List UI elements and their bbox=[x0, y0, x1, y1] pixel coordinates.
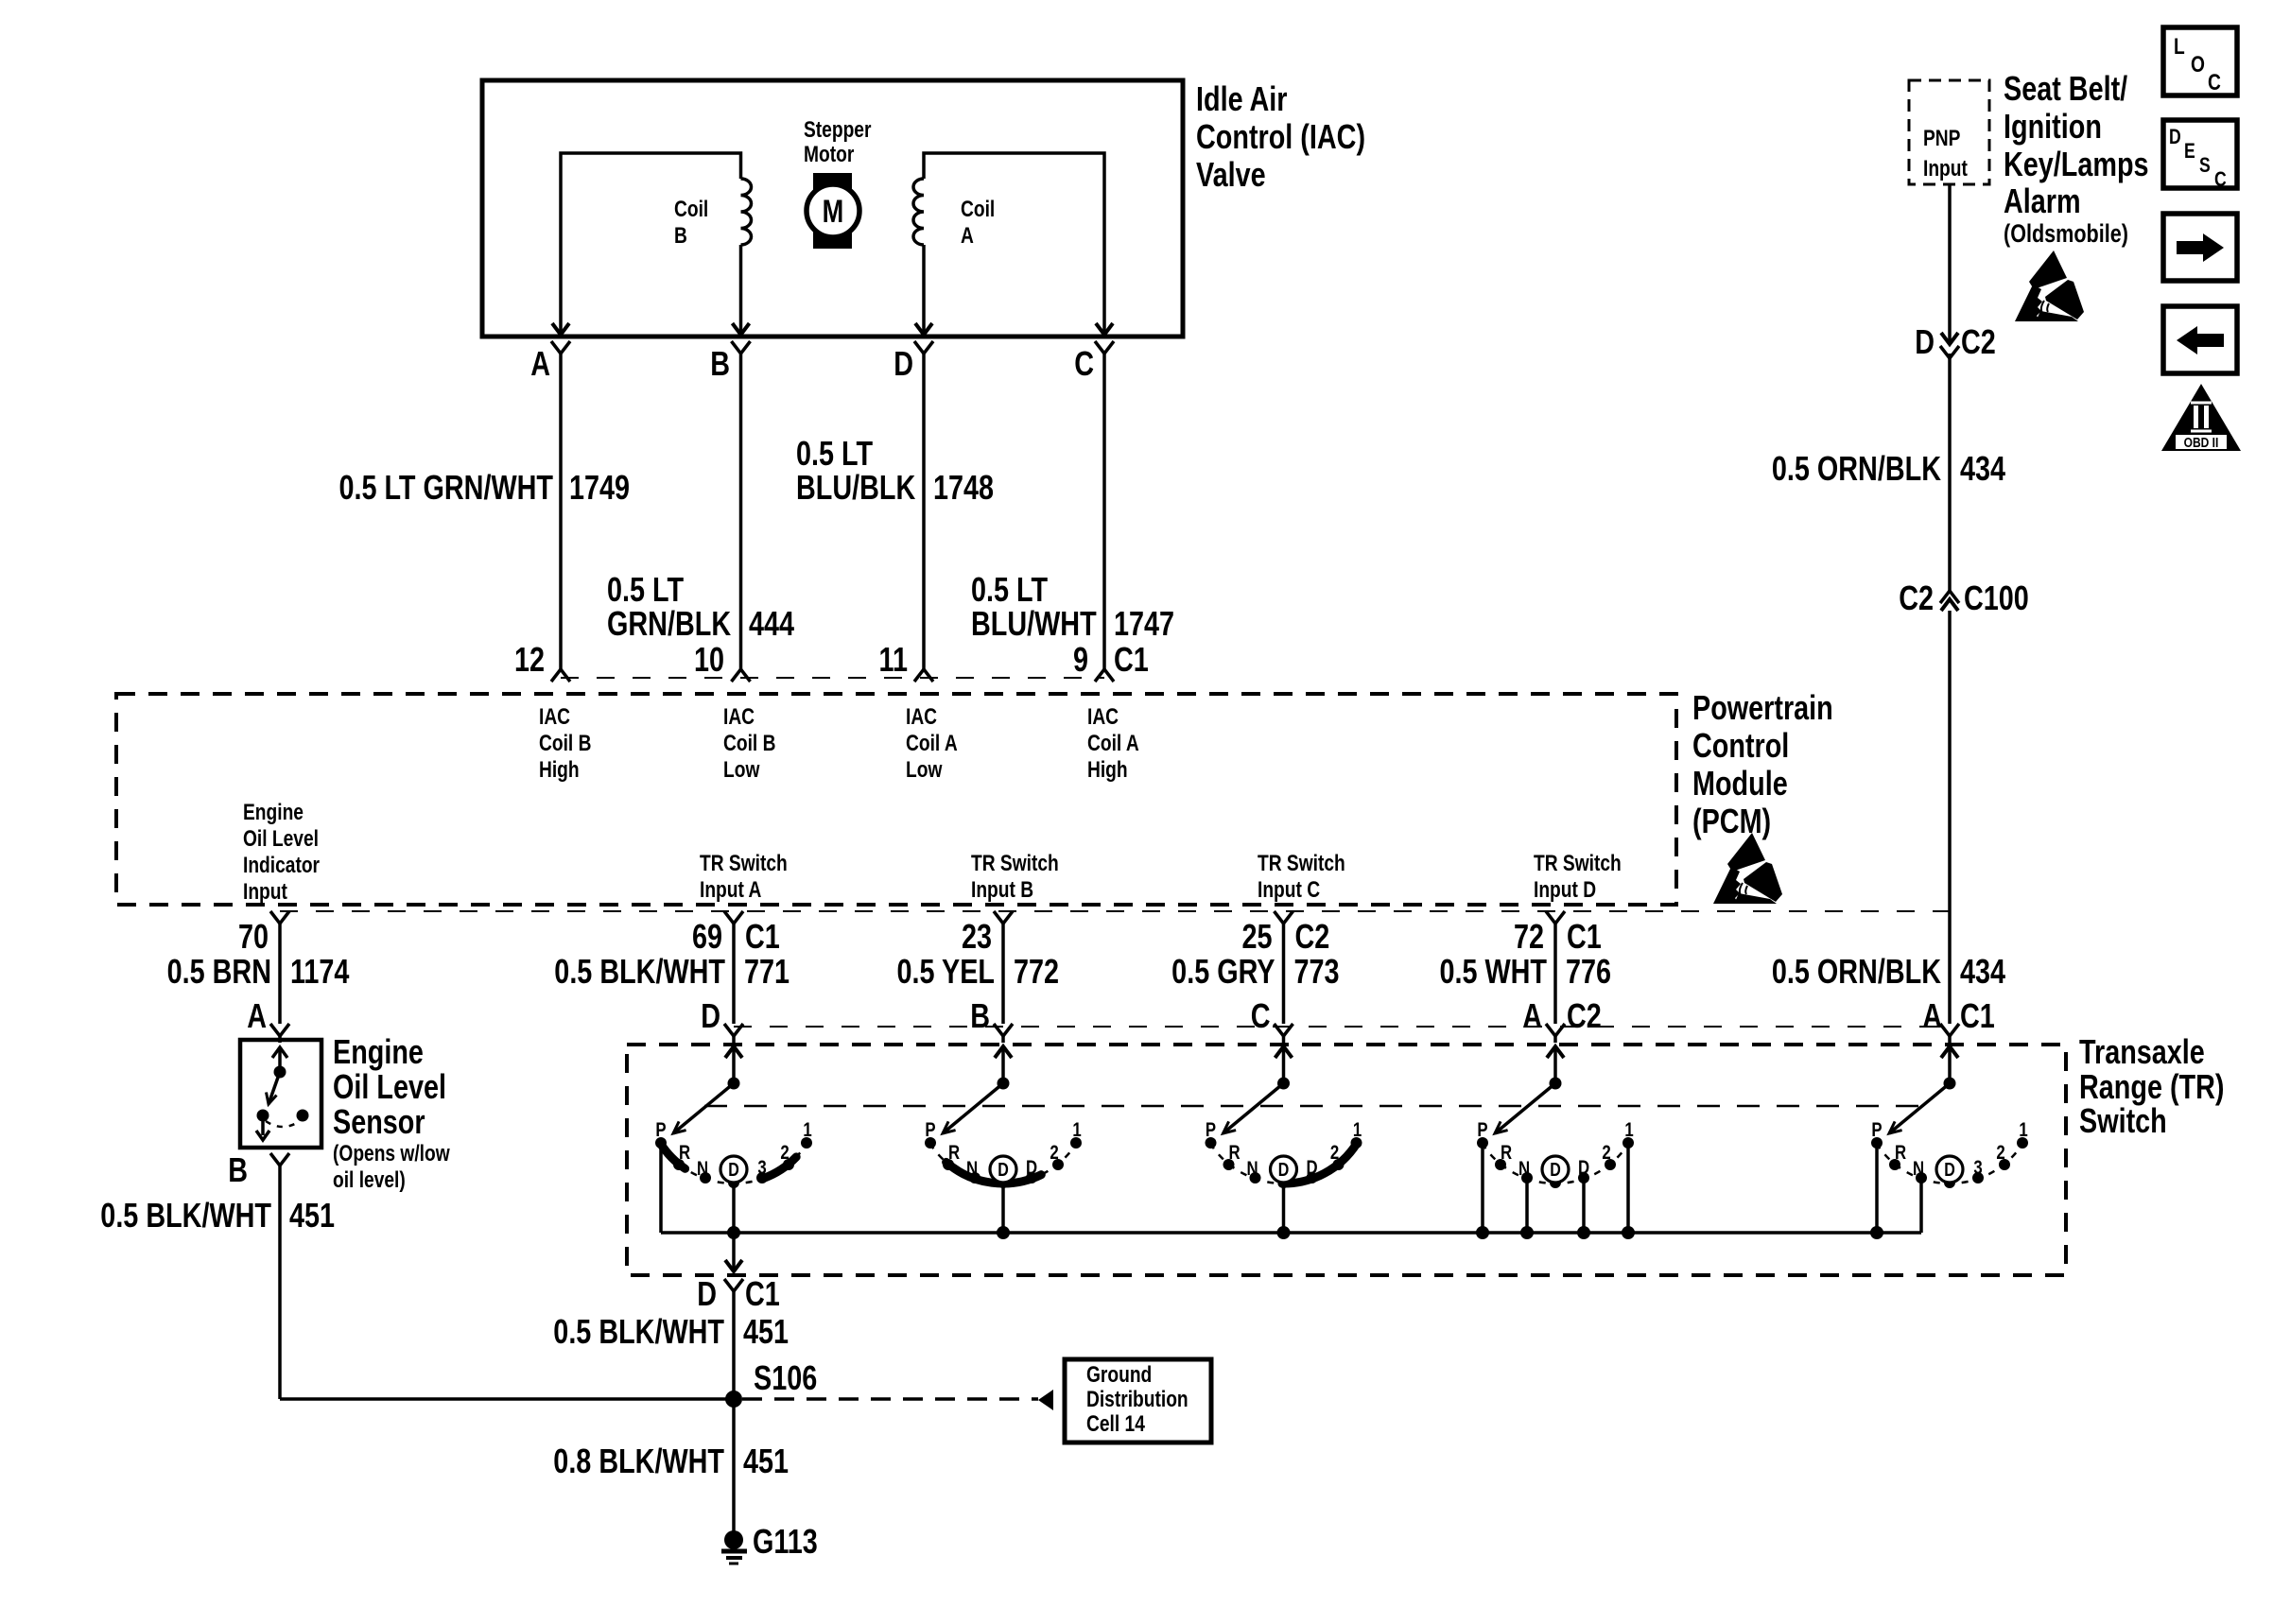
PCM pin 70 wire 1174 to TR switch bbox=[167, 911, 350, 1043]
svg-text:1: 1 bbox=[803, 1119, 812, 1141]
svg-text:OBD II: OBD II bbox=[2184, 435, 2219, 451]
svg-text:C2: C2 bbox=[1295, 917, 1330, 956]
svg-text:Engine: Engine bbox=[243, 799, 304, 825]
svg-text:0.5 ORN/BLK: 0.5 ORN/BLK bbox=[1772, 449, 1942, 488]
svg-text:451: 451 bbox=[743, 1312, 789, 1351]
svg-text:0.5 BRN: 0.5 BRN bbox=[167, 952, 271, 991]
PNP input box bbox=[1909, 80, 1989, 184]
svg-text:Distribution: Distribution bbox=[1086, 1386, 1189, 1412]
PCM box bbox=[116, 694, 1676, 905]
svg-text:Stepper: Stepper bbox=[804, 116, 872, 143]
IAC valve pin A wire bbox=[530, 323, 570, 669]
svg-text:O: O bbox=[2191, 51, 2205, 78]
svg-text:High: High bbox=[539, 756, 580, 783]
PCM engine oil level indicator input label bbox=[243, 799, 321, 905]
wire 434 lower segment bbox=[1948, 611, 1952, 1024]
sensor pin B wire 451 bbox=[100, 1150, 335, 1399]
LOC icon bbox=[2163, 27, 2237, 95]
TR switch common bus wire bbox=[661, 1231, 1921, 1235]
svg-text:1: 1 bbox=[1624, 1119, 1634, 1141]
svg-text:Coil A: Coil A bbox=[906, 730, 958, 756]
svg-text:D: D bbox=[2169, 126, 2181, 148]
Transaxle Range switch box bbox=[627, 1045, 2066, 1275]
PCM TR switch input A label bbox=[700, 850, 788, 903]
OBD II icon bbox=[2161, 384, 2241, 451]
svg-text:IAC: IAC bbox=[1087, 703, 1119, 730]
IAC valve label bbox=[1196, 79, 1365, 194]
svg-text:S: S bbox=[2199, 154, 2211, 177]
PCM pin 10 connector bbox=[694, 640, 751, 682]
svg-text:Input A: Input A bbox=[700, 876, 762, 903]
svg-text:72: 72 bbox=[1514, 917, 1544, 956]
PCM pin 9 connector bbox=[1073, 640, 1114, 682]
svg-text:Seat Belt/: Seat Belt/ bbox=[2004, 69, 2127, 108]
svg-text:B: B bbox=[970, 996, 990, 1035]
TR switch label bbox=[2079, 1032, 2224, 1140]
svg-text:C: C bbox=[2208, 69, 2221, 95]
svg-text:Oil Level: Oil Level bbox=[243, 825, 319, 852]
svg-text:0.5 LT: 0.5 LT bbox=[607, 570, 684, 609]
svg-text:776: 776 bbox=[1566, 952, 1611, 991]
svg-text:D: D bbox=[1550, 1159, 1561, 1180]
svg-text:3: 3 bbox=[757, 1157, 766, 1179]
svg-text:C1: C1 bbox=[1960, 996, 1995, 1035]
svg-text:S106: S106 bbox=[754, 1358, 817, 1397]
svg-text:773: 773 bbox=[1294, 952, 1340, 991]
svg-text:Low: Low bbox=[723, 756, 759, 783]
connector A/C1 into TR switch bbox=[1922, 996, 1995, 1043]
svg-text:Key/Lamps: Key/Lamps bbox=[2004, 145, 2149, 183]
svg-text:A: A bbox=[961, 222, 974, 249]
svg-text:Coil: Coil bbox=[674, 196, 708, 222]
wire 451 lower label bbox=[553, 1442, 789, 1480]
svg-text:1: 1 bbox=[2019, 1119, 2028, 1141]
wire 1747 label bbox=[971, 570, 1174, 643]
back arrow icon bbox=[2163, 306, 2237, 373]
svg-text:10: 10 bbox=[694, 640, 724, 679]
svg-text:Ignition: Ignition bbox=[2004, 107, 2102, 146]
ESD sensitive symbol (PCM) bbox=[1713, 833, 1782, 904]
svg-text:444: 444 bbox=[749, 604, 794, 643]
PCM pin 23 wire 772 to TR switch bbox=[897, 911, 1059, 1043]
svg-text:R: R bbox=[1228, 1142, 1240, 1164]
svg-text:11: 11 bbox=[879, 640, 908, 679]
svg-text:Sensor: Sensor bbox=[333, 1102, 425, 1141]
ESD sensitive symbol (alarm) bbox=[2015, 251, 2084, 321]
svg-text:1174: 1174 bbox=[290, 952, 349, 991]
svg-text:C100: C100 bbox=[1964, 579, 2029, 617]
svg-text:2: 2 bbox=[780, 1142, 789, 1164]
wire 1749 label bbox=[338, 468, 630, 507]
svg-text:23: 23 bbox=[962, 917, 992, 956]
wire 434 mid segment bbox=[1948, 354, 1952, 591]
svg-text:Coil B: Coil B bbox=[539, 730, 591, 756]
wire 434 ORN/BLK label lower bbox=[1772, 952, 2005, 991]
wire 434 ORN/BLK label upper bbox=[1772, 449, 2005, 488]
svg-text:R: R bbox=[948, 1142, 960, 1164]
svg-text:N: N bbox=[697, 1158, 708, 1180]
svg-text:0.5 YEL: 0.5 YEL bbox=[897, 952, 995, 991]
TR rotary switch 4 (input D) bbox=[1476, 1046, 1635, 1239]
svg-text:Input D: Input D bbox=[1534, 876, 1596, 903]
svg-text:2: 2 bbox=[1050, 1142, 1058, 1164]
connector face line (IAC pins) bbox=[561, 677, 1104, 679]
TR rotary switch 3 (input C) bbox=[1206, 1046, 1362, 1239]
wire 1748 label bbox=[796, 434, 994, 507]
svg-text:1: 1 bbox=[1072, 1119, 1082, 1141]
svg-text:R: R bbox=[1895, 1142, 1906, 1164]
coil A (IAC) bbox=[913, 153, 1104, 333]
svg-text:0.5 LT: 0.5 LT bbox=[971, 570, 1048, 609]
svg-text:D: D bbox=[701, 996, 720, 1035]
svg-text:Range (TR): Range (TR) bbox=[2079, 1067, 2224, 1106]
svg-text:0.5 BLK/WHT: 0.5 BLK/WHT bbox=[100, 1196, 271, 1235]
sensor branch wire to splice bbox=[280, 1397, 734, 1401]
svg-text:Input: Input bbox=[243, 878, 287, 905]
svg-text:D: D bbox=[1944, 1159, 1955, 1180]
svg-text:Powertrain: Powertrain bbox=[1692, 688, 1833, 727]
svg-text:(Opens w/low: (Opens w/low bbox=[333, 1140, 450, 1166]
DESC icon bbox=[2163, 120, 2237, 192]
svg-text:BLU/BLK: BLU/BLK bbox=[796, 468, 916, 507]
svg-text:B: B bbox=[710, 344, 730, 383]
svg-text:1: 1 bbox=[1353, 1119, 1362, 1141]
svg-text:M: M bbox=[823, 193, 844, 230]
svg-text:B: B bbox=[674, 222, 687, 249]
svg-text:(PCM): (PCM) bbox=[1692, 802, 1771, 840]
svg-text:25: 25 bbox=[1241, 917, 1272, 956]
svg-text:70: 70 bbox=[238, 917, 269, 956]
PCM pin function label at 1150 bbox=[1087, 703, 1139, 783]
svg-text:D: D bbox=[697, 1274, 717, 1313]
svg-text:2: 2 bbox=[1996, 1142, 2004, 1164]
PCM label bbox=[1692, 688, 1833, 840]
svg-text:772: 772 bbox=[1014, 952, 1059, 991]
svg-text:0.5 WHT: 0.5 WHT bbox=[1439, 952, 1547, 991]
connector D/C2 inline bbox=[1915, 322, 1996, 361]
svg-text:B: B bbox=[228, 1150, 248, 1189]
svg-text:Alarm: Alarm bbox=[2004, 181, 2081, 220]
svg-text:A: A bbox=[1522, 996, 1542, 1035]
svg-text:C1: C1 bbox=[745, 1274, 780, 1313]
svg-text:G113: G113 bbox=[753, 1522, 818, 1561]
svg-text:D: D bbox=[1578, 1157, 1589, 1179]
svg-text:BLU/WHT: BLU/WHT bbox=[971, 604, 1097, 643]
svg-text:D: D bbox=[728, 1159, 739, 1180]
svg-text:3: 3 bbox=[1973, 1157, 1982, 1179]
svg-text:N: N bbox=[1246, 1158, 1258, 1180]
svg-text:D: D bbox=[1915, 322, 1935, 361]
svg-text:Cell 14: Cell 14 bbox=[1086, 1410, 1145, 1437]
TR rotary switch 2 (input B) bbox=[925, 1046, 1082, 1239]
svg-text:N: N bbox=[1913, 1158, 1924, 1180]
svg-text:0.5 ORN/BLK: 0.5 ORN/BLK bbox=[1772, 952, 1942, 991]
svg-text:D: D bbox=[998, 1159, 1009, 1180]
svg-text:Transaxle: Transaxle bbox=[2079, 1032, 2205, 1071]
svg-text:A: A bbox=[1922, 996, 1942, 1035]
svg-text:A: A bbox=[247, 996, 267, 1035]
svg-text:Idle Air: Idle Air bbox=[1196, 79, 1288, 118]
svg-text:C2: C2 bbox=[1961, 322, 1996, 361]
svg-text:TR Switch: TR Switch bbox=[1534, 850, 1622, 876]
svg-text:P: P bbox=[1871, 1119, 1882, 1141]
svg-text:1747: 1747 bbox=[1114, 604, 1174, 643]
svg-text:0.5 LT: 0.5 LT bbox=[796, 434, 873, 473]
svg-text:TR Switch: TR Switch bbox=[1258, 850, 1345, 876]
svg-text:C2: C2 bbox=[1567, 996, 1602, 1035]
svg-text:1748: 1748 bbox=[933, 468, 994, 507]
svg-text:C2: C2 bbox=[1899, 579, 1934, 617]
svg-text:Ground: Ground bbox=[1086, 1361, 1152, 1388]
svg-text:R: R bbox=[679, 1142, 690, 1164]
IAC valve pin C wire bbox=[1074, 323, 1114, 669]
forward arrow icon bbox=[2163, 214, 2237, 281]
svg-text:Module: Module bbox=[1692, 764, 1788, 803]
svg-text:2: 2 bbox=[1330, 1142, 1339, 1164]
svg-text:434: 434 bbox=[1960, 449, 2005, 488]
svg-text:C: C bbox=[1074, 344, 1094, 383]
svg-text:Low: Low bbox=[906, 756, 942, 783]
svg-text:C1: C1 bbox=[745, 917, 780, 956]
svg-text:0.5 BLK/WHT: 0.5 BLK/WHT bbox=[554, 952, 725, 991]
svg-text:C: C bbox=[1251, 996, 1271, 1035]
svg-text:TR Switch: TR Switch bbox=[971, 850, 1059, 876]
engine oil level sensor bbox=[240, 1040, 321, 1148]
PCM TR switch input D label bbox=[1534, 850, 1622, 903]
TR rotary switch 5 (PNP) bbox=[1870, 1046, 2028, 1239]
svg-text:Input C: Input C bbox=[1258, 876, 1320, 903]
TR rotary switch 1 (input A) bbox=[655, 1046, 812, 1239]
svg-text:N: N bbox=[1518, 1158, 1530, 1180]
svg-text:D: D bbox=[894, 344, 913, 383]
PCM pin 11 connector bbox=[879, 640, 933, 682]
splice S106 bbox=[725, 1358, 817, 1408]
svg-text:Motor: Motor bbox=[804, 141, 855, 167]
svg-text:A: A bbox=[530, 344, 550, 383]
svg-text:High: High bbox=[1087, 756, 1128, 783]
svg-text:434: 434 bbox=[1960, 952, 2005, 991]
PCM pin function label at 570 bbox=[539, 703, 591, 783]
svg-text:IAC: IAC bbox=[723, 703, 755, 730]
svg-text:P: P bbox=[1477, 1119, 1487, 1141]
svg-text:Indicator: Indicator bbox=[243, 852, 321, 878]
svg-text:GRN/BLK: GRN/BLK bbox=[607, 604, 732, 643]
PCM TR switch input C label bbox=[1258, 850, 1345, 903]
svg-text:E: E bbox=[2184, 140, 2195, 163]
engine oil level sensor label bbox=[333, 1032, 450, 1193]
PCM pin function label at 958 bbox=[906, 703, 958, 783]
ground G113 bbox=[721, 1522, 818, 1564]
IAC valve box bbox=[482, 80, 1183, 337]
svg-text:IAC: IAC bbox=[906, 703, 937, 730]
svg-text:D: D bbox=[1026, 1157, 1037, 1179]
svg-text:Control (IAC): Control (IAC) bbox=[1196, 117, 1365, 156]
svg-text:771: 771 bbox=[744, 952, 789, 991]
svg-text:L: L bbox=[2174, 33, 2185, 60]
coil B (IAC) bbox=[561, 153, 752, 333]
svg-text:Coil B: Coil B bbox=[723, 730, 775, 756]
connector C1 label (PCM top) bbox=[1114, 640, 1149, 679]
svg-text:P: P bbox=[655, 1119, 666, 1141]
PCM pin 69 wire 771 to TR switch bbox=[554, 911, 789, 1043]
IAC valve pin D wire bbox=[894, 323, 933, 669]
svg-text:R: R bbox=[1501, 1142, 1512, 1164]
svg-text:69: 69 bbox=[692, 917, 722, 956]
svg-text:PNP: PNP bbox=[1923, 125, 1960, 151]
svg-text:TR Switch: TR Switch bbox=[700, 850, 788, 876]
TR output wire D/C1 bbox=[553, 1233, 789, 1531]
mechanical link line bbox=[704, 1105, 1929, 1108]
svg-text:D: D bbox=[1306, 1157, 1317, 1179]
wire 434 upper segment bbox=[1948, 184, 1952, 344]
svg-text:Coil A: Coil A bbox=[1087, 730, 1139, 756]
svg-text:451: 451 bbox=[743, 1442, 789, 1480]
svg-text:Input: Input bbox=[1923, 155, 1968, 181]
svg-text:9: 9 bbox=[1073, 640, 1088, 679]
stepper motor M bbox=[804, 116, 872, 249]
svg-text:0.5 GRY: 0.5 GRY bbox=[1171, 952, 1275, 991]
svg-text:Engine: Engine bbox=[333, 1032, 424, 1071]
svg-text:Control: Control bbox=[1692, 726, 1789, 765]
PCM TR switch input B label bbox=[971, 850, 1059, 903]
connector face line (PCM bottom) bbox=[280, 910, 1950, 912]
PCM pin 12 connector bbox=[514, 640, 570, 682]
svg-text:1749: 1749 bbox=[569, 468, 630, 507]
PCM pin function label at 765 bbox=[723, 703, 775, 783]
svg-text:C: C bbox=[2214, 168, 2227, 191]
svg-text:0.8 BLK/WHT: 0.8 BLK/WHT bbox=[553, 1442, 724, 1480]
svg-text:2: 2 bbox=[1602, 1142, 1610, 1164]
svg-text:Oil Level: Oil Level bbox=[333, 1067, 446, 1106]
svg-text:P: P bbox=[925, 1119, 935, 1141]
svg-text:C1: C1 bbox=[1114, 640, 1149, 679]
IAC valve pin B wire bbox=[710, 323, 750, 669]
svg-text:Input B: Input B bbox=[971, 876, 1033, 903]
svg-text:Coil: Coil bbox=[961, 196, 995, 222]
svg-text:Valve: Valve bbox=[1196, 155, 1266, 194]
svg-text:C1: C1 bbox=[1567, 917, 1602, 956]
svg-text:(Oldsmobile): (Oldsmobile) bbox=[2004, 220, 2128, 249]
svg-text:451: 451 bbox=[289, 1196, 335, 1235]
svg-text:D: D bbox=[1278, 1159, 1290, 1180]
wire 444 label bbox=[607, 570, 794, 643]
svg-text:0.5 LT GRN/WHT: 0.5 LT GRN/WHT bbox=[338, 468, 553, 507]
PCM pin 25 wire 773 to TR switch bbox=[1171, 911, 1339, 1043]
seat belt alarm label bbox=[2004, 69, 2149, 249]
svg-text:P: P bbox=[1206, 1119, 1216, 1141]
svg-text:oil level): oil level) bbox=[333, 1166, 406, 1193]
connector C2/C100 inline bbox=[1899, 579, 2029, 617]
ground distribution reference bbox=[742, 1359, 1211, 1443]
PCM pin 72 wire 776 to TR switch bbox=[1439, 911, 1611, 1043]
svg-text:Switch: Switch bbox=[2079, 1101, 2167, 1140]
svg-text:IAC: IAC bbox=[539, 703, 570, 730]
svg-text:12: 12 bbox=[514, 640, 545, 679]
svg-text:N: N bbox=[966, 1158, 978, 1180]
svg-text:0.5 BLK/WHT: 0.5 BLK/WHT bbox=[553, 1312, 724, 1351]
connector face line (TR top) bbox=[734, 1026, 1950, 1028]
